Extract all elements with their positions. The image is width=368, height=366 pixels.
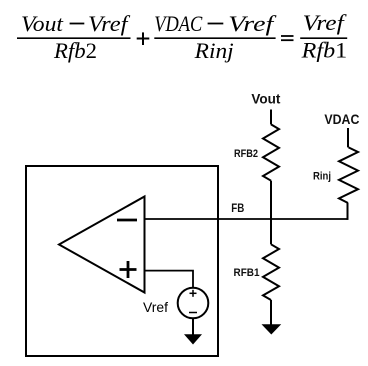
svg-text:Vref: Vref: [88, 11, 131, 36]
op-amp non-inverting input plus symbol: [120, 261, 137, 278]
wire RFB1 to ground: [270, 300, 272, 325]
formula numerator VDAC - Vref: [154, 11, 277, 36]
svg-text:RFB2: RFB2: [234, 148, 258, 160]
resistor Rinj: [339, 147, 358, 203]
wire Vref source to ground: [192, 318, 194, 335]
formula fraction bar 3: [300, 37, 347, 39]
svg-text:Rinj: Rinj: [313, 171, 331, 183]
resistor RFB2: [263, 124, 279, 180]
svg-text:Vout: Vout: [251, 91, 280, 107]
voltage source minus mark: [189, 312, 197, 314]
resistor RFB1: [263, 244, 279, 300]
svg-text:Rfb1: Rfb1: [301, 38, 348, 63]
wire op-amp plus input to Vref source: [145, 271, 194, 288]
voltage source plus mark: [190, 290, 197, 297]
svg-text:RFB1: RFB1: [234, 267, 260, 279]
voltage source Vref circle: [178, 288, 209, 319]
svg-text:Vref: Vref: [228, 11, 277, 36]
svg-text:Vref: Vref: [143, 299, 168, 315]
IC box outline: [26, 166, 218, 356]
svg-text:Vout: Vout: [21, 11, 64, 36]
wire VDAC to Rinj: [347, 128, 349, 147]
wire FB net horizontal: [145, 218, 348, 220]
formula equals sign: [281, 36, 294, 40]
formula numerator Vout - Vref: [21, 11, 131, 36]
svg-text:Rfb2: Rfb2: [53, 38, 97, 63]
wire Vout to RFB2: [270, 110, 272, 125]
wire Rinj to FB net: [347, 203, 349, 220]
formula fraction bar 2: [154, 37, 275, 39]
formula plus sign: [137, 32, 150, 45]
svg-text:VDAC: VDAC: [154, 11, 202, 36]
wire RFB2 to FB to RFB1: [270, 181, 272, 245]
ground under RFB1: [262, 324, 282, 334]
formula fraction bar 1: [17, 37, 131, 39]
svg-text:Vref: Vref: [303, 10, 347, 35]
op-amp U1 triangle: [59, 197, 145, 293]
svg-text:FB: FB: [231, 201, 244, 215]
ground under Vref source: [184, 334, 202, 344]
op-amp inverting input minus symbol: [117, 219, 137, 222]
svg-text:VDAC: VDAC: [324, 111, 359, 127]
svg-text:Rinj: Rinj: [194, 38, 234, 63]
